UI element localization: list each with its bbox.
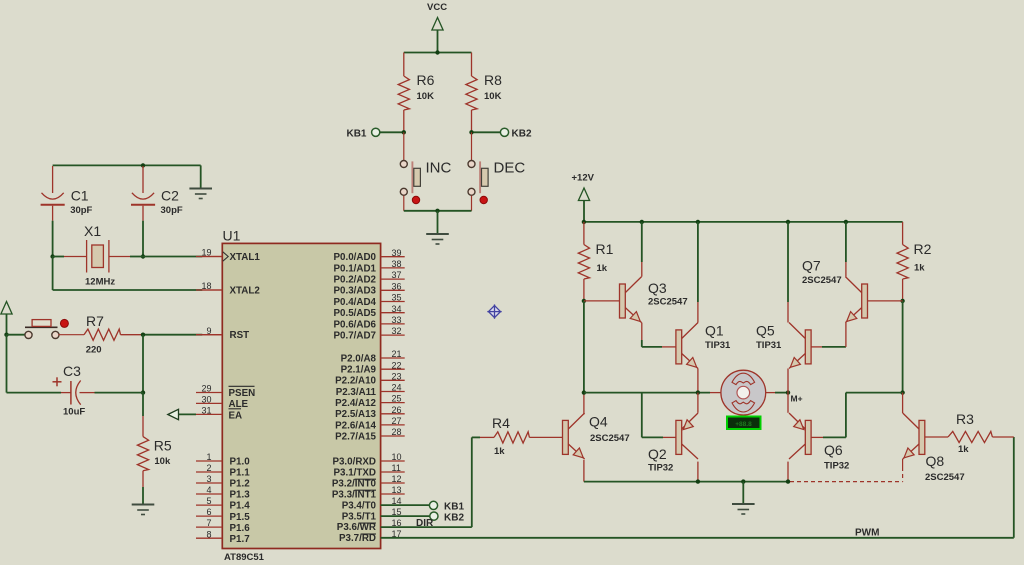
svg-text:P0.7/AD7: P0.7/AD7 (334, 331, 377, 342)
svg-text:TIP32: TIP32 (824, 461, 849, 472)
svg-text:C3: C3 (63, 363, 81, 379)
svg-text:10: 10 (392, 452, 402, 462)
svg-text:13: 13 (392, 485, 402, 495)
svg-text:P1.4: P1.4 (230, 501, 251, 512)
svg-text:1k: 1k (958, 444, 969, 455)
svg-text:XTAL2: XTAL2 (230, 286, 261, 297)
svg-text:19: 19 (201, 248, 211, 258)
svg-text:Q3: Q3 (648, 280, 667, 296)
svg-text:Q7: Q7 (802, 258, 821, 274)
svg-text:P3.7/RD: P3.7/RD (339, 533, 376, 544)
svg-text:P0.5/AD5: P0.5/AD5 (334, 308, 377, 319)
svg-text:P3.5/T1: P3.5/T1 (342, 511, 377, 522)
svg-text:P2.6/A14: P2.6/A14 (335, 420, 376, 431)
svg-text:12MHz: 12MHz (85, 277, 115, 288)
svg-text:P0.2/AD2: P0.2/AD2 (334, 275, 377, 286)
svg-text:26: 26 (392, 405, 402, 415)
svg-text:38: 38 (392, 259, 402, 269)
svg-text:39: 39 (392, 248, 402, 258)
svg-text:34: 34 (392, 304, 402, 314)
svg-text:C2: C2 (161, 188, 179, 204)
svg-text:EA: EA (229, 410, 243, 421)
svg-text:INC: INC (426, 160, 452, 177)
svg-text:TIP32: TIP32 (648, 463, 673, 474)
svg-text:30pF: 30pF (161, 205, 183, 216)
svg-text:R1: R1 (596, 241, 614, 257)
svg-text:KB2: KB2 (512, 129, 532, 140)
svg-text:9: 9 (206, 326, 211, 336)
svg-text:P2.4/A12: P2.4/A12 (335, 398, 376, 409)
svg-text:18: 18 (201, 281, 211, 291)
svg-text:P0.4/AD4: P0.4/AD4 (334, 297, 377, 308)
svg-text:6: 6 (206, 507, 211, 517)
svg-text:P0.0/AD0: P0.0/AD0 (334, 252, 377, 263)
svg-text:P1.7: P1.7 (230, 534, 251, 545)
svg-text:5: 5 (206, 496, 211, 506)
svg-text:3: 3 (206, 474, 211, 484)
svg-text:R2: R2 (914, 241, 932, 257)
svg-text:P1.5: P1.5 (230, 512, 251, 523)
svg-text:Q2: Q2 (648, 446, 667, 462)
svg-text:27: 27 (392, 416, 402, 426)
svg-text:33: 33 (392, 315, 402, 325)
svg-text:4: 4 (206, 485, 211, 495)
svg-text:R5: R5 (154, 438, 172, 454)
svg-text:TIP31: TIP31 (705, 340, 731, 351)
svg-text:VCC: VCC (427, 2, 447, 13)
svg-text:P3.2/INT0: P3.2/INT0 (332, 478, 377, 489)
svg-text:P3.1/TXD: P3.1/TXD (334, 467, 376, 478)
svg-text:1k: 1k (597, 263, 608, 274)
svg-text:PSEN: PSEN (229, 388, 256, 399)
svg-text:10K: 10K (417, 91, 435, 102)
svg-text:M+: M+ (791, 394, 803, 404)
svg-text:KB1: KB1 (444, 501, 464, 512)
svg-text:P2.1/A9: P2.1/A9 (341, 365, 377, 376)
svg-text:R7: R7 (86, 313, 104, 329)
svg-text:R4: R4 (492, 415, 510, 431)
svg-text:24: 24 (392, 383, 402, 393)
svg-text:12: 12 (392, 474, 402, 484)
svg-text:32: 32 (392, 326, 402, 336)
svg-text:Q4: Q4 (589, 414, 608, 430)
svg-text:P0.6/AD6: P0.6/AD6 (334, 319, 377, 330)
svg-text:R6: R6 (417, 72, 435, 88)
svg-text:Q8: Q8 (926, 453, 945, 469)
svg-text:8: 8 (206, 529, 211, 539)
svg-text:37: 37 (392, 270, 402, 280)
svg-text:P0.3/AD3: P0.3/AD3 (334, 286, 377, 297)
svg-text:XTAL1: XTAL1 (230, 252, 261, 263)
svg-text:P3.3/INT1: P3.3/INT1 (332, 489, 377, 500)
svg-text:220: 220 (86, 345, 102, 356)
svg-text:R8: R8 (484, 72, 502, 88)
svg-text:Q1: Q1 (705, 323, 724, 339)
svg-text:P1.1: P1.1 (230, 468, 251, 479)
svg-text:RST: RST (230, 330, 250, 341)
svg-text:21: 21 (392, 349, 402, 359)
svg-text:R3: R3 (956, 411, 974, 427)
svg-text:31: 31 (201, 406, 211, 416)
svg-text:28: 28 (392, 427, 402, 437)
svg-text:P2.3/A11: P2.3/A11 (336, 387, 377, 398)
svg-text:1k: 1k (494, 446, 505, 457)
svg-text:11: 11 (392, 463, 401, 473)
svg-text:P0.1/AD1: P0.1/AD1 (334, 263, 377, 274)
svg-text:7: 7 (206, 518, 211, 528)
svg-text:2SC2547: 2SC2547 (925, 472, 965, 483)
svg-text:Q6: Q6 (824, 442, 843, 458)
svg-text:P1.6: P1.6 (230, 523, 251, 534)
svg-text:P1.0: P1.0 (230, 457, 251, 468)
svg-text:23: 23 (392, 371, 402, 381)
svg-text:30: 30 (201, 395, 211, 405)
svg-text:2: 2 (206, 463, 211, 473)
svg-text:P2.5/A13: P2.5/A13 (335, 409, 376, 420)
svg-text:10uF: 10uF (63, 407, 85, 418)
svg-text:P2.2/A10: P2.2/A10 (335, 376, 376, 387)
svg-text:U1: U1 (223, 228, 241, 244)
svg-text:Q5: Q5 (756, 323, 775, 339)
svg-text:KB2: KB2 (444, 513, 464, 524)
svg-text:PWM: PWM (855, 528, 879, 539)
svg-text:AT89C51: AT89C51 (224, 552, 265, 563)
svg-text:35: 35 (392, 293, 402, 303)
svg-text:22: 22 (392, 360, 402, 370)
svg-text:36: 36 (392, 281, 402, 291)
svg-text:25: 25 (392, 394, 402, 404)
svg-text:P3.4/T0: P3.4/T0 (342, 500, 377, 511)
svg-text:DIR: DIR (416, 518, 434, 529)
svg-text:+12V: +12V (572, 173, 595, 184)
svg-text:P1.3: P1.3 (230, 490, 251, 501)
svg-text:P2.7/A15: P2.7/A15 (335, 431, 376, 442)
svg-text:1k: 1k (914, 263, 925, 274)
svg-text:2SC2547: 2SC2547 (802, 275, 842, 286)
svg-text:C1: C1 (71, 188, 89, 204)
svg-text:P2.0/A8: P2.0/A8 (341, 353, 377, 364)
svg-text:1: 1 (206, 452, 211, 462)
svg-text:2SC2547: 2SC2547 (590, 433, 630, 444)
svg-text:+88.8: +88.8 (735, 421, 752, 428)
svg-text:X1: X1 (84, 223, 101, 239)
svg-text:10k: 10k (154, 456, 171, 467)
svg-text:29: 29 (201, 384, 211, 394)
svg-text:DEC: DEC (494, 160, 526, 177)
svg-text:P3.6/WR: P3.6/WR (337, 522, 376, 533)
svg-text:KB1: KB1 (346, 129, 366, 140)
svg-text:10K: 10K (484, 91, 502, 102)
svg-text:TIP31: TIP31 (756, 340, 782, 351)
svg-text:P1.2: P1.2 (230, 479, 251, 490)
svg-text:30pF: 30pF (70, 205, 92, 216)
svg-text:2SC2547: 2SC2547 (648, 297, 688, 308)
svg-text:P3.0/RXD: P3.0/RXD (332, 456, 376, 467)
